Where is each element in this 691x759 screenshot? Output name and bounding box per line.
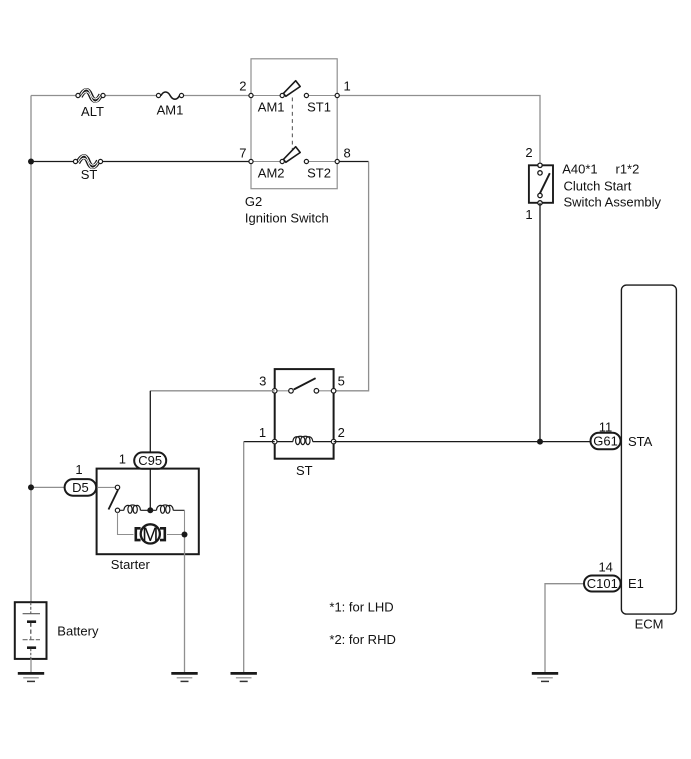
dashed link between switch levers <box>291 98 293 157</box>
relay coil <box>293 436 313 444</box>
svg-text:C101: C101 <box>587 576 618 591</box>
svg-text:G61: G61 <box>593 434 618 449</box>
wire: ignition terminal 1 to clutch switch <box>337 96 540 166</box>
junction bus/D5 <box>28 484 34 490</box>
svg-text:ST2: ST2 <box>307 165 331 180</box>
svg-text:Switch Assembly: Switch Assembly <box>564 195 662 210</box>
connector C95 <box>134 452 166 468</box>
svg-text:*1: for LHD: *1: for LHD <box>329 600 393 615</box>
wire: ST link to ignition terminal 7 <box>101 161 252 163</box>
svg-text:AM1: AM1 <box>157 103 184 118</box>
svg-text:3: 3 <box>259 374 266 389</box>
wire: relay 3 left to C95 <box>150 390 274 392</box>
ECM box <box>621 285 676 614</box>
ignition terminals <box>249 93 339 163</box>
ignition switch G2 box <box>251 59 337 189</box>
wire: down to C95 <box>149 391 151 453</box>
wire: top row battery to ALT <box>31 95 78 97</box>
svg-text:ECM: ECM <box>635 617 664 632</box>
svg-text:STA: STA <box>628 434 653 449</box>
wire: relay 3 row internals <box>275 390 334 392</box>
svg-text:*2: for RHD: *2: for RHD <box>329 632 395 647</box>
svg-text:7: 7 <box>239 145 246 160</box>
wire: battery to ground <box>30 659 32 673</box>
wire: starter internal from D5 <box>97 486 118 488</box>
svg-text:2: 2 <box>525 145 532 160</box>
svg-text:1: 1 <box>344 79 351 94</box>
svg-text:A40*1: A40*1 <box>562 162 597 177</box>
wire: starter to ground <box>184 535 186 673</box>
wire: relay coil row internals <box>275 441 334 443</box>
wire: clutch switch down to STA junction <box>539 203 541 442</box>
junction bus/ST row <box>28 159 34 165</box>
ground battery <box>18 673 44 681</box>
wire: E1 to ground <box>545 584 585 673</box>
wire: ignition terminal 8 right <box>337 161 368 163</box>
lever AM2-ST2 <box>284 147 301 163</box>
wire: ignition internal bottom row <box>251 161 337 163</box>
svg-text:8: 8 <box>344 145 351 160</box>
connector G61 <box>591 433 621 450</box>
relay blade <box>294 378 316 389</box>
wire: C95 down through coil junction <box>149 469 151 511</box>
svg-text:r1*2: r1*2 <box>616 162 640 177</box>
wire: AM1 to ignition terminal 2 <box>182 95 252 97</box>
svg-text:2: 2 <box>338 425 345 440</box>
wire: relay 1 to ground <box>244 441 275 443</box>
svg-text:C95: C95 <box>138 453 162 468</box>
wire: ignition internal top row <box>251 95 337 97</box>
wire: left vertical bus <box>30 96 32 603</box>
svg-text:Clutch Start: Clutch Start <box>564 179 632 194</box>
svg-text:E1: E1 <box>628 576 644 591</box>
wire: bus to D5 <box>31 486 64 488</box>
starter switch blade <box>109 490 119 510</box>
fusible link ALT <box>76 89 105 102</box>
svg-text:1: 1 <box>259 425 266 440</box>
svg-text:M: M <box>142 524 158 546</box>
svg-text:5: 5 <box>338 374 345 389</box>
junction coil row <box>147 507 153 513</box>
wire: terminal 8 down to relay terminal 5 <box>334 162 369 391</box>
battery box <box>15 602 47 659</box>
ground ECM <box>532 673 558 681</box>
svg-text:Battery: Battery <box>57 624 99 639</box>
wire: starter motor loop <box>118 510 185 534</box>
svg-text:1: 1 <box>525 207 532 222</box>
svg-text:14: 14 <box>598 560 612 575</box>
starter coil 1 <box>124 505 140 513</box>
svg-text:1: 1 <box>119 452 126 467</box>
ground starter <box>171 673 197 681</box>
wire: ST row bus to ST link <box>31 161 76 163</box>
clutch switch terminals <box>538 163 542 205</box>
ST relay box <box>275 369 334 459</box>
ignition contacts <box>280 93 308 163</box>
svg-text:D5: D5 <box>72 480 89 495</box>
fusible link ST <box>73 155 102 168</box>
junction motor row <box>182 532 188 538</box>
svg-text:AM2: AM2 <box>258 165 285 180</box>
svg-text:ST: ST <box>296 463 313 478</box>
connector C101 <box>584 576 621 592</box>
svg-text:G2: G2 <box>245 194 262 209</box>
svg-text:ST: ST <box>81 167 98 182</box>
lever AM1-ST1 <box>284 81 301 97</box>
svg-text:11: 11 <box>599 420 613 435</box>
clutch switch blade <box>539 173 550 195</box>
clutch start switch A40 box <box>529 165 553 203</box>
ground relay <box>231 673 257 681</box>
fuse AM1 <box>156 92 183 99</box>
battery cells <box>23 602 40 659</box>
svg-text:Ignition Switch: Ignition Switch <box>245 211 329 226</box>
junction clutch/STA <box>537 439 543 445</box>
svg-text:AM1: AM1 <box>258 100 285 115</box>
wire: relay 2 to ECM STA <box>334 441 592 443</box>
svg-text:ST1: ST1 <box>307 100 331 115</box>
motor M <box>136 524 165 546</box>
svg-text:1: 1 <box>75 462 82 477</box>
relay terminals <box>272 389 336 444</box>
wire: starter coil row <box>120 509 185 511</box>
wire: ALT to AM1 <box>103 95 159 97</box>
svg-text:Starter: Starter <box>111 557 151 572</box>
starter switch contacts <box>115 485 119 512</box>
svg-text:ALT: ALT <box>81 104 104 119</box>
connector D5 <box>65 479 97 496</box>
starter coil 2 <box>157 505 174 513</box>
starter box <box>97 469 199 555</box>
svg-text:2: 2 <box>239 79 246 94</box>
